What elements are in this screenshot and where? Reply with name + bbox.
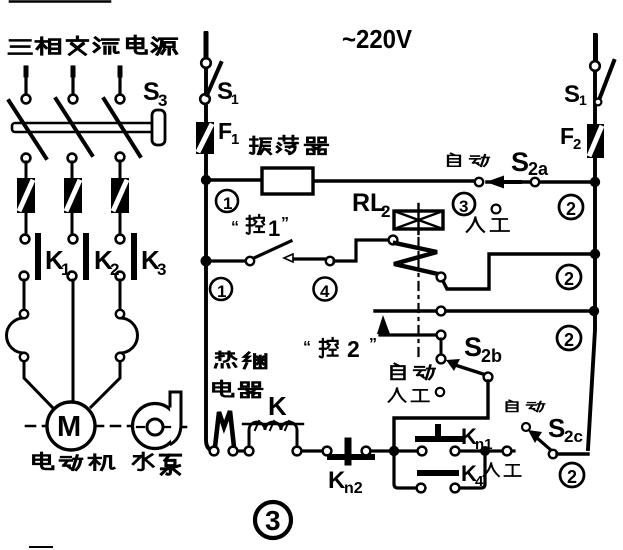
svg-text:4: 4 bbox=[320, 282, 330, 301]
svg-text:2: 2 bbox=[564, 269, 574, 289]
svg-text:S: S bbox=[564, 81, 580, 108]
svg-text:1: 1 bbox=[268, 216, 280, 241]
svg-text:n1: n1 bbox=[475, 436, 493, 453]
svg-text:1: 1 bbox=[231, 131, 239, 148]
svg-text:1: 1 bbox=[217, 282, 226, 301]
svg-text:2c: 2c bbox=[564, 427, 583, 446]
svg-text:1: 1 bbox=[579, 92, 587, 108]
svg-text:2: 2 bbox=[110, 260, 119, 279]
svg-text:2: 2 bbox=[564, 330, 574, 350]
svg-text:”: ” bbox=[281, 215, 289, 232]
svg-text:4: 4 bbox=[475, 473, 484, 490]
svg-text:~220V: ~220V bbox=[342, 24, 413, 54]
svg-text:1: 1 bbox=[231, 91, 239, 107]
svg-text:2: 2 bbox=[573, 136, 581, 153]
svg-text:2: 2 bbox=[567, 467, 577, 487]
svg-text:3: 3 bbox=[158, 91, 167, 110]
svg-text:F: F bbox=[218, 118, 232, 144]
svg-text:F: F bbox=[560, 123, 574, 149]
svg-text:2: 2 bbox=[381, 202, 390, 221]
svg-text:2b: 2b bbox=[481, 346, 502, 366]
svg-text:2: 2 bbox=[347, 336, 360, 362]
svg-text:S: S bbox=[464, 332, 482, 362]
svg-text:1: 1 bbox=[61, 260, 70, 279]
svg-text:M: M bbox=[57, 411, 81, 443]
svg-text:3: 3 bbox=[459, 197, 468, 216]
svg-text:“: “ bbox=[303, 339, 311, 356]
svg-text:S: S bbox=[548, 413, 565, 443]
svg-text:3: 3 bbox=[157, 260, 166, 279]
svg-text:1: 1 bbox=[223, 194, 232, 213]
svg-text:S: S bbox=[511, 147, 529, 177]
svg-text:2: 2 bbox=[566, 199, 576, 219]
svg-text:“: “ bbox=[231, 219, 239, 236]
svg-text:3: 3 bbox=[265, 505, 281, 536]
svg-text:K: K bbox=[268, 391, 287, 421]
svg-text:2a: 2a bbox=[528, 159, 549, 179]
svg-text:n2: n2 bbox=[344, 480, 363, 497]
svg-text:”: ” bbox=[369, 336, 377, 353]
